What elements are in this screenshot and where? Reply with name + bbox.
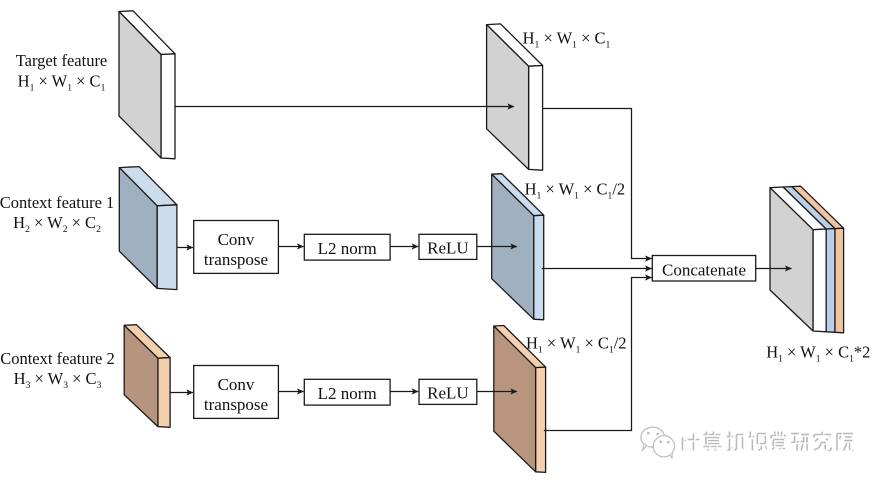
watermark text (simulated CJK strokes, embossed)	[682, 432, 854, 451]
box: Conv transpose (row 1)	[194, 221, 279, 274]
transformed context 2 block H1xW1xC1/2 (orange slab)	[494, 326, 546, 473]
wire: L2 norm 1 to ReLU 1, arrow	[390, 246, 418, 248]
svg-text:transpose: transpose	[204, 250, 268, 269]
wire: context1 block to Conv transpose 1, arrow	[177, 247, 193, 249]
wire: orange block right, up to Concatenate bottom input, arrow	[544, 278, 652, 431]
wire: Conv transpose 1 to L2 norm 1, arrow	[278, 246, 303, 248]
svg-text:Context feature 2: Context feature 2	[0, 349, 115, 368]
wire: ReLU 2 to orange H1W1C1/2 block, arrow	[477, 391, 517, 393]
wire: context2 block to Conv transpose 2, arrow	[170, 392, 193, 394]
svg-text:Conv: Conv	[218, 230, 255, 249]
svg-text:transpose: transpose	[204, 395, 268, 414]
svg-text:L2 norm: L2 norm	[318, 384, 377, 403]
svg-text:Concatenate: Concatenate	[662, 260, 746, 279]
context feature 1 block (blue slab)	[119, 167, 177, 290]
watermark logo: two chat bubbles	[641, 427, 675, 458]
transformed context 1 block H1xW1xC1/2 (blue slab)	[492, 174, 544, 320]
target feature map block (gray slab)	[119, 11, 175, 159]
svg-text:ReLU: ReLU	[427, 239, 469, 258]
wire: target feature block to H1W1C1 block, arrow	[176, 106, 515, 108]
box: Conv transpose (row 2)	[194, 366, 279, 419]
box: L2 norm (row 1)	[304, 234, 390, 260]
wire: L2 norm 2 to ReLU 2, arrow	[390, 391, 418, 393]
wire: blue block to Concatenate middle input, arrow	[542, 268, 652, 270]
wire: Conv transpose 2 to L2 norm 2, arrow	[278, 391, 303, 393]
box: ReLU (row 2)	[419, 379, 477, 404]
box: L2 norm (row 2)	[304, 379, 390, 405]
box: ReLU (row 1)	[419, 234, 477, 259]
wire: Concatenate to output block, arrow	[756, 268, 792, 270]
resized target feature block H1xW1xC1 (gray slab)	[487, 24, 543, 170]
wire: H1W1C1 block right, down to Concatenate top input, arrow	[543, 109, 652, 259]
svg-text:L2 norm: L2 norm	[318, 239, 377, 258]
wire: ReLU 1 to blue H1W1C1/2 block, arrow	[477, 246, 517, 248]
svg-text:Conv: Conv	[218, 375, 255, 394]
svg-text:ReLU: ReLU	[427, 384, 469, 403]
context feature 2 block (orange slab)	[124, 325, 170, 428]
concatenated output block H1xW1xC1*2 (gray+white+blue+orange slab)	[770, 186, 844, 333]
svg-text:Context feature 1: Context feature 1	[0, 193, 114, 212]
svg-text:Target feature: Target feature	[16, 51, 108, 70]
box: Concatenate	[652, 256, 755, 282]
